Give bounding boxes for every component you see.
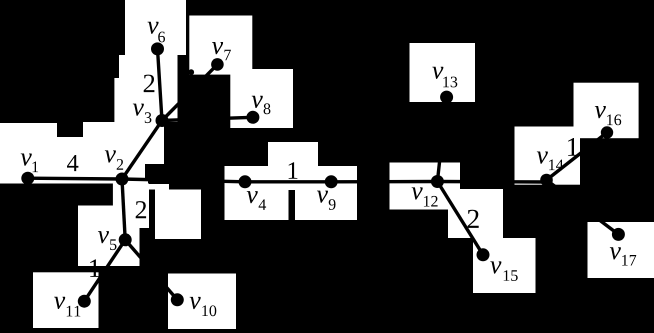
white box weight4 band [0,137,148,184]
node v7 [211,58,224,71]
node v14 [540,174,553,187]
weight 4 (v1-v2) [67,155,78,171]
node v10 [171,293,184,306]
node v15 [477,248,490,261]
wire v2-v3 [122,121,162,180]
wire v5-v10 [125,240,177,300]
white box v17 [588,222,654,278]
white box v3 [114,78,177,122]
label v6 [148,22,166,43]
white box weight2c [448,189,503,238]
white box v12 label [390,165,461,210]
node v1 [21,172,34,185]
weight 1 (v5-v11) [90,259,99,277]
label v7 [212,42,231,60]
weight 1 (v4-v9) [289,162,298,179]
white box v1 [0,123,57,183]
wire v14-v16 [547,133,608,181]
weight 2 (v12-v15) [468,210,479,228]
label v12 [412,187,438,206]
wire v4-v9 [245,180,331,183]
label v2 [105,150,123,169]
white box v12 strip [390,163,461,182]
white box v9 [295,166,357,220]
wire v12-v15 [437,182,483,255]
node v16 [601,126,613,138]
label v15 [490,261,517,281]
wire v5-v11 [84,240,125,301]
label v10 [190,297,217,316]
weight 2 (v2-v5) [136,201,146,218]
wire v9-v12 [331,180,437,184]
label v16 [595,106,621,125]
weight 1 (v14-v16) [568,138,578,156]
node v11 [78,295,91,308]
wire v2-v5 [122,179,125,240]
white box empty mid [155,190,201,240]
node v17 [612,228,625,241]
label v8 [252,96,271,114]
wire v3-v7 [162,64,217,120]
white box v15 [473,238,536,293]
label v3 [133,104,152,124]
label v11 [54,297,80,317]
black bump artifact near v7 rect corner [188,69,194,75]
weight 2 (v3-v6) [144,75,155,93]
white box v8 [230,69,293,128]
white box v13 [410,43,476,102]
white box v2 [83,122,164,164]
node v4 [239,175,252,188]
white box v10 [168,274,236,330]
node v5 [119,233,132,246]
white box v7 [189,16,252,75]
white box weight1b [268,142,318,190]
wire v2-v4 [122,179,245,182]
white box v6 [125,0,186,55]
white box v16 [574,83,639,139]
node v3 [156,114,169,127]
label v14 [537,152,564,171]
wire v3-v6 [158,49,163,121]
label v4 [247,191,266,210]
white box v14 [515,127,581,185]
label v17 [610,247,636,265]
node v6 [151,42,164,55]
node v2 [116,173,129,186]
white box v4 [225,166,289,220]
node v8 [246,111,259,124]
label v13 [432,67,457,88]
wire v14-v17 [547,180,619,234]
white box v5 [78,206,140,267]
node v13 [440,91,453,104]
label v1 [21,154,38,173]
wire v12-v13 [437,97,446,181]
white box band2 [140,184,169,190]
wire v3-v8 [162,117,253,120]
node v9 [325,175,338,188]
white box weight2b [113,184,149,229]
label v5 [98,231,117,250]
wire v1-v2 [28,176,122,180]
black notch right of v2 area [145,164,164,178]
label v9 [317,191,336,210]
white box weight2a [119,55,178,78]
node v12 [431,175,444,188]
white box v11 [33,272,99,328]
wire v12-v14 [437,180,546,184]
